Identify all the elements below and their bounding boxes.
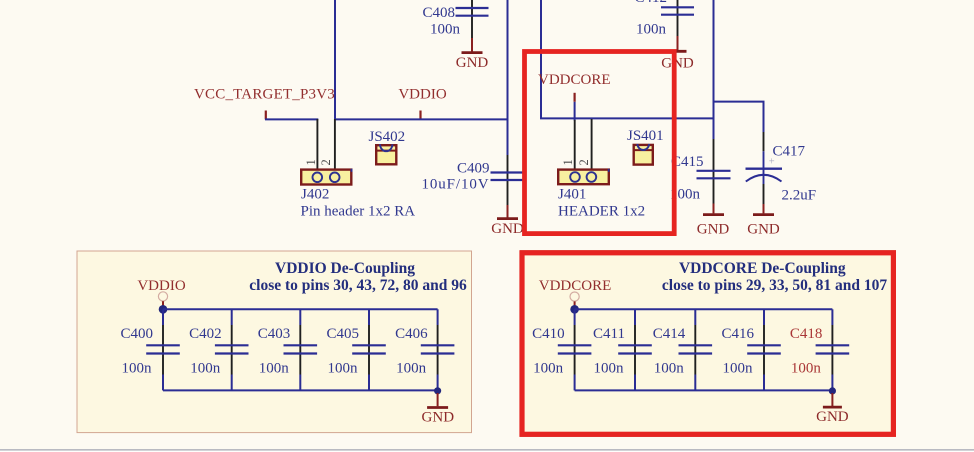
svg-text:GND: GND xyxy=(697,221,730,237)
svg-text:1: 1 xyxy=(561,159,575,165)
VDDCORE de-coupling titles xyxy=(662,260,887,294)
capacitor C406 xyxy=(395,309,454,390)
svg-text:GND: GND xyxy=(816,409,849,425)
wire xyxy=(574,102,576,121)
ground xyxy=(422,393,455,425)
capacitor C411 xyxy=(593,309,652,390)
wire xyxy=(714,102,764,132)
svg-text:C410: C410 xyxy=(532,326,565,342)
svg-text:C418: C418 xyxy=(790,326,823,342)
svg-text:100n: 100n xyxy=(791,360,822,376)
svg-text:100n: 100n xyxy=(654,360,685,376)
svg-text:JS402: JS402 xyxy=(369,129,406,145)
capacitor C410 xyxy=(532,309,591,390)
svg-text:10uF/10V: 10uF/10V xyxy=(421,176,489,192)
wire xyxy=(265,118,318,120)
ground xyxy=(697,204,730,238)
svg-text:C417: C417 xyxy=(773,144,806,160)
svg-text:100n: 100n xyxy=(259,360,290,376)
wire xyxy=(713,0,715,139)
svg-text:2.2uF: 2.2uF xyxy=(782,188,817,204)
svg-text:GND: GND xyxy=(491,221,524,237)
svg-text:100n: 100n xyxy=(122,360,153,376)
VDDCORE de-coupling block background xyxy=(521,251,896,437)
connector J401 xyxy=(558,119,645,220)
capacitor C414 xyxy=(653,309,712,390)
svg-text:C403: C403 xyxy=(258,326,291,342)
ground xyxy=(747,204,780,237)
capacitor C412 xyxy=(634,0,694,37)
svg-text:VDDIO: VDDIO xyxy=(398,86,446,102)
jumper JS402 xyxy=(369,129,406,165)
junction xyxy=(829,387,836,394)
svg-text:VDDIO De-Coupling: VDDIO De-Coupling xyxy=(275,260,415,277)
capacitor C405 xyxy=(326,309,385,390)
highlight box VDDCORE block xyxy=(522,253,893,434)
power port VDDCORE xyxy=(539,278,612,307)
capacitor C418 xyxy=(790,309,849,390)
wire xyxy=(334,0,336,120)
svg-text:C402: C402 xyxy=(189,326,222,342)
capacitor C402 xyxy=(189,309,248,390)
svg-text:GND: GND xyxy=(661,55,694,71)
svg-text:100n: 100n xyxy=(396,360,427,376)
power port VDDIO xyxy=(137,278,185,307)
svg-text:HEADER 1x2: HEADER 1x2 xyxy=(558,204,645,220)
wire bottom rail xyxy=(575,389,833,391)
svg-text:C414: C414 xyxy=(653,326,686,342)
ground xyxy=(456,38,489,71)
svg-text:C411: C411 xyxy=(593,326,625,342)
svg-text:C400: C400 xyxy=(120,326,153,342)
ground xyxy=(491,205,524,237)
svg-text:100n: 100n xyxy=(594,360,625,376)
svg-text:C409: C409 xyxy=(457,161,490,177)
svg-text:close to pins 30, 43, 72, 80 a: close to pins 30, 43, 72, 80 and 96 xyxy=(249,277,467,294)
capacitor C416 xyxy=(721,309,780,390)
svg-text:100n: 100n xyxy=(430,21,461,37)
junction xyxy=(159,305,168,314)
svg-text:VDDCORE De-Coupling: VDDCORE De-Coupling xyxy=(679,260,846,277)
sheet bottom strip xyxy=(0,450,974,452)
svg-text:close to pins 29, 33, 50, 81 a: close to pins 29, 33, 50, 81 and 107 xyxy=(662,277,887,294)
svg-text:2: 2 xyxy=(319,159,333,165)
power port VDDCORE xyxy=(538,72,611,102)
svg-text:C406: C406 xyxy=(395,326,428,342)
svg-text:JS401: JS401 xyxy=(627,128,664,144)
svg-text:GND: GND xyxy=(422,409,455,425)
svg-text:J401: J401 xyxy=(558,187,586,203)
connector J402 xyxy=(301,119,416,220)
svg-text:GND: GND xyxy=(747,221,780,237)
junction xyxy=(434,387,441,394)
power port VCC_TARGET_P3V3 xyxy=(194,86,335,119)
svg-text:1: 1 xyxy=(304,159,318,165)
capacitor C408 xyxy=(422,0,488,38)
VDDIO de-coupling titles xyxy=(249,260,467,294)
capacitor C417 xyxy=(746,132,817,204)
wire xyxy=(541,0,714,118)
wire xyxy=(335,118,509,120)
capacitor C400 xyxy=(120,309,179,390)
capacitor C415 xyxy=(670,139,731,204)
svg-text:100n: 100n xyxy=(190,360,221,376)
svg-text:2: 2 xyxy=(577,159,591,165)
VDDIO de-coupling block background xyxy=(77,251,472,433)
svg-text:100n: 100n xyxy=(328,360,359,376)
svg-text:C405: C405 xyxy=(326,326,359,342)
highlight box J401 region xyxy=(525,52,675,234)
wire xyxy=(507,0,509,155)
power port VDDIO xyxy=(398,86,446,118)
svg-text:C416: C416 xyxy=(721,326,754,342)
ground xyxy=(816,393,849,425)
svg-text:C412: C412 xyxy=(634,0,667,6)
wire bottom rail xyxy=(163,389,438,391)
svg-text:VDDCORE: VDDCORE xyxy=(538,72,611,88)
svg-text:100n: 100n xyxy=(723,360,754,376)
jumper JS401 xyxy=(627,128,664,165)
junction xyxy=(570,305,579,314)
wire top rail xyxy=(575,308,833,310)
capacitor C409 xyxy=(421,155,524,205)
svg-text:Pin header 1x2 RA: Pin header 1x2 RA xyxy=(301,204,416,220)
svg-text:GND: GND xyxy=(456,55,489,71)
wire top rail xyxy=(163,308,438,310)
ground xyxy=(661,36,694,71)
svg-text:J402: J402 xyxy=(301,187,329,203)
capacitor C403 xyxy=(258,309,317,390)
svg-text:VCC_TARGET_P3V3: VCC_TARGET_P3V3 xyxy=(194,86,335,102)
svg-text:100n: 100n xyxy=(636,21,667,37)
svg-text:100n: 100n xyxy=(533,360,564,376)
svg-text:C408: C408 xyxy=(422,5,455,21)
